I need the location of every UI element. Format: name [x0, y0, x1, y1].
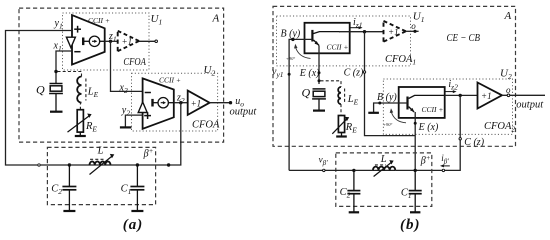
wire x1 input — [56, 51, 72, 84]
buffer +1 dashed (b1) — [384, 21, 406, 42]
terminal U1 output (ring) — [155, 40, 158, 43]
svg-text:A: A — [212, 13, 220, 25]
node z2 junction — [179, 101, 182, 104]
feedback network beta+ dashed box — [47, 147, 155, 204]
inductor LE (dashed leads) — [58, 72, 86, 110]
CFOA U2 dotted box — [132, 73, 218, 131]
svg-text:L: L — [380, 154, 387, 165]
wire collector z2 out (b2) — [445, 94, 478, 96]
svg-text:C (z): C (z) — [344, 67, 364, 78]
node E(x)1 — [318, 71, 321, 74]
wire y2 to ground — [125, 115, 142, 126]
U2 internal buffer triangle — [138, 102, 147, 113]
transistor Q2 (b) — [408, 95, 445, 112]
CFOA2 dotted box (b) — [383, 79, 512, 134]
wire collector z1 out (b1) — [339, 31, 384, 33]
terminal o (b1) — [413, 30, 416, 33]
wire emitter E(x)1 down — [318, 45, 320, 84]
CCII box 2 (b) — [399, 87, 445, 118]
node vy1 (dot) — [288, 73, 291, 76]
wire U2 output — [210, 102, 231, 104]
svg-text:+1: +1 — [191, 98, 202, 108]
terminal uo output (dot) — [229, 101, 232, 104]
ground (B(y)2) — [368, 112, 379, 114]
crystal Q — [49, 84, 63, 112]
ground (Q) — [50, 111, 63, 113]
CFOA1 dotted box (b) — [277, 16, 411, 66]
node v beta (ring) — [323, 169, 325, 171]
node on bottom rail right — [167, 163, 170, 166]
wire B(y)2 to ground — [374, 103, 408, 112]
node iz2 junction — [459, 94, 462, 97]
svg-text:CFOA1: CFOA1 — [385, 54, 416, 67]
label iz1 with arrow — [350, 17, 363, 30]
U2 internal current source — [153, 98, 174, 108]
svg-text:CFOA: CFOA — [192, 119, 220, 130]
resistor RE (b) — [332, 116, 349, 136]
ground (C2) — [63, 210, 75, 212]
U1 internal current source — [83, 36, 105, 46]
wire z1 to x2 — [111, 41, 143, 91]
wire b2 output — [502, 94, 545, 96]
node C2 junction (b) — [352, 169, 355, 172]
ground (C1 b) — [410, 211, 420, 213]
wire rail C2 to L — [69, 164, 89, 166]
node z1 junction — [109, 40, 112, 43]
U2 minus input mark — [145, 92, 151, 94]
node C1 junction (b) — [414, 169, 417, 172]
amplifier block A (dashed box) — [19, 8, 224, 142]
svg-text:+1: +1 — [122, 37, 133, 47]
wire C(z)1 down and over to E(x)2 — [365, 32, 416, 136]
wire B(y)1 input — [289, 39, 312, 170]
buffer +1 of U2 (solid triangle) — [188, 91, 210, 115]
svg-text:+90°: +90° — [383, 122, 393, 127]
node on B(y)2 wire — [378, 102, 381, 105]
svg-text:L: L — [97, 146, 104, 157]
svg-text:CCII +: CCII + — [327, 43, 349, 52]
transistor Q1 (b) — [312, 30, 340, 46]
node C(z)2 (ring) — [459, 138, 461, 140]
wire rail to L (b) — [354, 169, 373, 171]
buffer +1 solid (b2) — [478, 83, 503, 109]
wire C(z)2 vertical — [415, 95, 460, 170]
svg-text:(b): (b) — [400, 217, 421, 233]
capacitor C2 — [62, 165, 76, 210]
U1 minus input mark — [74, 51, 80, 53]
node E(x)2 — [414, 122, 417, 125]
capacitor C1 (b) — [409, 170, 422, 211]
buffer +1 of U1 (dashed triangle) — [118, 31, 139, 51]
ground (C1) — [131, 210, 143, 212]
wire z2 output — [174, 102, 188, 104]
svg-text:B (y): B (y) — [281, 29, 301, 40]
node Q top junction — [54, 70, 57, 73]
ground (Q b) — [313, 109, 325, 111]
CCII box 1 (b) — [305, 23, 350, 54]
wire bottom rail (b) — [289, 169, 354, 171]
svg-text:CFOA: CFOA — [123, 57, 146, 68]
node v (open) on bottom wire — [38, 164, 40, 166]
label iz2 with arrow — [446, 79, 459, 93]
node LE branch junction (b) — [318, 79, 321, 82]
inductor L (b, variable) — [373, 160, 395, 176]
capacitor C1 — [130, 165, 144, 210]
svg-text:B (y): B (y) — [377, 92, 397, 103]
svg-text:CCII +: CCII + — [422, 105, 444, 114]
wire emitter E(x)2 down — [414, 112, 416, 170]
ground (RE b) — [336, 135, 347, 137]
svg-text:Q: Q — [302, 86, 311, 100]
wire z1 output — [105, 40, 118, 42]
svg-text:A: A — [504, 10, 512, 22]
svg-text:E (x): E (x) — [299, 68, 320, 79]
capacitor C2 (b) — [347, 170, 360, 211]
svg-text:+90°: +90° — [286, 56, 296, 61]
svg-text:output: output — [230, 107, 258, 118]
svg-text:CCII +: CCII + — [88, 16, 110, 25]
svg-text:(a): (a) — [123, 217, 144, 233]
ground (C2 b) — [349, 211, 359, 213]
feedback network beta+ dashed box (b) — [336, 153, 432, 207]
svg-text:CFOA2: CFOA2 — [484, 121, 515, 134]
rotation arrow (b2) — [383, 108, 406, 127]
U2 plus input mark — [144, 112, 151, 119]
node B(y)1 — [291, 38, 294, 41]
CFOA U1 dotted box — [63, 13, 150, 70]
wire L to C1 — [111, 164, 138, 166]
node i beta (ring) — [442, 169, 444, 171]
rotation arrow (b1) — [286, 44, 311, 61]
wire L to C1 (b) — [395, 169, 415, 171]
svg-text:+1: +1 — [481, 91, 492, 101]
svg-text:C (z): C (z) — [464, 137, 484, 148]
node C2 junction — [68, 163, 71, 166]
wire b1 output — [406, 30, 419, 32]
label i beta with arrow — [440, 153, 450, 167]
ground (y2) — [120, 126, 131, 128]
svg-text:CCII +: CCII + — [159, 75, 181, 84]
node C(z)1 (ring) — [363, 71, 365, 73]
inductor LE (b) — [321, 81, 345, 116]
node iz1 junction — [363, 30, 366, 33]
svg-text:output: output — [516, 100, 544, 111]
wire z2 down to bottom rail — [137, 103, 180, 165]
U1 internal buffer triangle — [66, 37, 75, 47]
terminal o (b2) — [507, 94, 510, 97]
op-amp U1 CCII+ trapezoid — [72, 15, 105, 65]
svg-text:CE − CB: CE − CB — [447, 32, 481, 44]
inductor L (variable) — [90, 154, 115, 175]
resistor RE (variable) — [68, 110, 92, 136]
amplifier block A (dashed box, b) — [273, 6, 516, 146]
U1 plus input mark — [74, 26, 81, 33]
crystal Q (b) — [312, 89, 326, 110]
op-amp U2 CCII+ trapezoid — [143, 78, 174, 128]
wire bottom rail to C2 — [40, 164, 69, 166]
svg-text:+1: +1 — [388, 27, 399, 37]
svg-text:o: o — [411, 21, 416, 31]
svg-text:o: o — [506, 85, 511, 95]
svg-text:Q: Q — [36, 83, 45, 97]
wire U1 buffer output — [139, 40, 155, 42]
ground (RE) — [75, 135, 86, 137]
svg-text:E (x): E (x) — [418, 122, 439, 133]
wire y1 input + left feedback rail — [6, 31, 73, 166]
node C1 junction — [136, 163, 139, 166]
